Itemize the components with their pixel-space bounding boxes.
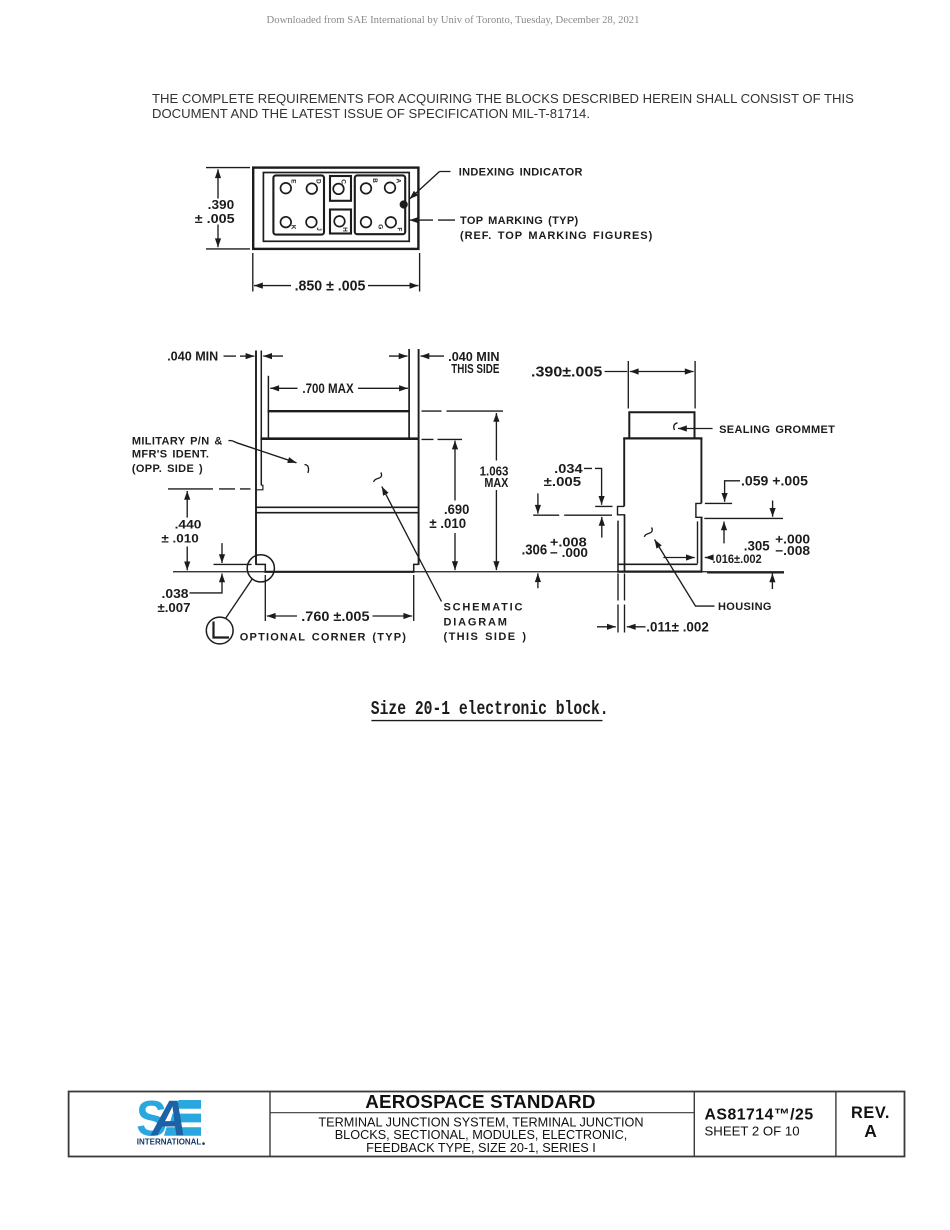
terminal hole K bbox=[281, 217, 292, 228]
top view inner case outline bbox=[263, 173, 409, 242]
baseline right extension bbox=[707, 572, 784, 574]
svg-text:INTERNATIONAL: INTERNATIONAL bbox=[137, 1136, 202, 1146]
svg-text:INDEXING INDICATOR: INDEXING INDICATOR bbox=[459, 167, 583, 179]
svg-text:OPTIONAL CORNER (TYP): OPTIONAL CORNER (TYP) bbox=[240, 632, 407, 644]
SAE registered dot bbox=[202, 1142, 205, 1145]
dim .850 extension right bbox=[419, 253, 421, 292]
svg-text:E: E bbox=[289, 179, 296, 184]
svg-text:(THIS SIDE ): (THIS SIDE ) bbox=[444, 631, 528, 643]
left wall inner line bbox=[260, 351, 262, 486]
right wall outer line bbox=[418, 349, 420, 565]
svg-text:D: D bbox=[315, 179, 322, 184]
dim .390 side leader bbox=[605, 371, 628, 373]
dim .040 right arrow bbox=[421, 355, 445, 357]
svg-text:.306: .306 bbox=[522, 542, 548, 558]
dim .306 lower arrow bbox=[537, 573, 539, 588]
dim 1.063 lower dimension line bbox=[495, 490, 497, 570]
dim 1.063 top extension bbox=[422, 410, 504, 412]
svg-text:.760 ±.005: .760 ±.005 bbox=[301, 608, 369, 624]
svg-text:A: A bbox=[864, 1121, 877, 1141]
housing left wall upper bbox=[623, 438, 625, 506]
svg-text:HOUSING: HOUSING bbox=[718, 601, 772, 613]
terminal hole A bbox=[385, 182, 396, 193]
title block outer border bbox=[69, 1092, 905, 1157]
terminal hole B bbox=[361, 183, 372, 194]
svg-text:A: A bbox=[395, 178, 402, 183]
dim .390 extension bottom bbox=[206, 248, 250, 250]
dim .390 side dimension line left arrow bbox=[630, 371, 661, 373]
dim .016 right arrow bbox=[705, 557, 713, 559]
dim 1.063 upper dimension line bbox=[495, 413, 497, 461]
svg-text:± .005: ± .005 bbox=[195, 211, 235, 226]
top marking leader bbox=[410, 219, 456, 221]
svg-text:REV.: REV. bbox=[851, 1104, 890, 1122]
dim .440 upper dimension line bbox=[186, 491, 188, 518]
svg-text:FEEDBACK TYPE, SIZE 20-1, SERI: FEEDBACK TYPE, SIZE 20-1, SERIES I bbox=[366, 1141, 596, 1155]
housing right inner line bbox=[697, 521, 699, 563]
grommet outline side view bbox=[629, 412, 694, 438]
title block horizontal divider bbox=[270, 1112, 694, 1114]
SAE logo letter E bars bbox=[164, 1100, 201, 1136]
tab top extension bbox=[595, 505, 612, 507]
title block divider title/number bbox=[693, 1092, 695, 1157]
svg-text:DIAGRAM: DIAGRAM bbox=[444, 616, 509, 628]
svg-text:MILITARY P/N &: MILITARY P/N & bbox=[132, 435, 223, 447]
dim .040 left arrow bbox=[240, 355, 254, 357]
svg-text:H: H bbox=[341, 227, 348, 232]
grommet left side and .700 extension bbox=[267, 376, 269, 438]
left tab bbox=[618, 506, 626, 514]
schematic diagram leader bbox=[382, 487, 442, 602]
right groove bbox=[696, 503, 703, 517]
svg-text:SHEET 2 OF 10: SHEET 2 OF 10 bbox=[705, 1123, 800, 1138]
svg-text:AEROSPACE STANDARD: AEROSPACE STANDARD bbox=[365, 1091, 595, 1112]
dim .059 upper arrow bbox=[724, 487, 726, 502]
housing leader hook bbox=[644, 528, 652, 537]
svg-text:− .000: − .000 bbox=[550, 546, 588, 560]
schematic diagram leader hook bbox=[374, 473, 382, 482]
sealing grommet leader hook bbox=[674, 423, 678, 430]
housing left skirt inner line bbox=[624, 515, 626, 572]
dim .390 side extension right bbox=[694, 361, 696, 409]
right wall inner line bbox=[408, 349, 410, 438]
optional corner balloon leader bbox=[226, 579, 253, 618]
dim .760 extension left bbox=[264, 575, 266, 621]
svg-text:.390: .390 bbox=[208, 197, 235, 212]
housing right wall upper bbox=[700, 438, 702, 503]
dim .011 right arrow bbox=[627, 626, 646, 628]
title block divider number/rev bbox=[835, 1092, 837, 1157]
tab bottom extension bbox=[533, 514, 612, 516]
groove bottom extension bbox=[704, 517, 783, 519]
terminal hole F bbox=[386, 217, 397, 228]
seam line lower bbox=[256, 512, 419, 514]
title block divider logo/title bbox=[269, 1092, 271, 1157]
svg-text:± .010: ± .010 bbox=[429, 516, 466, 531]
dim .440 lower dimension line bbox=[186, 547, 188, 571]
svg-text:.059 +.005: .059 +.005 bbox=[741, 473, 808, 488]
svg-text:(OPP. SIDE ): (OPP. SIDE ) bbox=[132, 463, 203, 475]
military ident leader hook bbox=[305, 465, 309, 474]
svg-text:THIS SIDE: THIS SIDE bbox=[451, 362, 499, 376]
svg-text:J: J bbox=[315, 227, 322, 231]
svg-text:TOP MARKING (TYP): TOP MARKING (TYP) bbox=[460, 215, 579, 227]
housing leader bbox=[655, 540, 715, 607]
dim .040 left dash bbox=[224, 355, 237, 357]
sealing grommet leader bbox=[678, 428, 713, 430]
dim .034 upper arrow bbox=[601, 478, 603, 505]
svg-text:SEALING GROMMET: SEALING GROMMET bbox=[719, 424, 835, 436]
svg-text:.700 MAX: .700 MAX bbox=[302, 381, 354, 396]
dim .390 side extension left bbox=[627, 361, 629, 409]
dim .011 left arrow bbox=[597, 626, 616, 628]
terminal hole J bbox=[306, 217, 317, 228]
dim .390 extension top bbox=[206, 167, 250, 169]
bottom right corner notch bbox=[414, 564, 419, 571]
left cavity outline bbox=[273, 175, 324, 234]
dim .850 dimension line left bbox=[254, 285, 291, 287]
dim .040 left inner arrow bbox=[263, 355, 283, 357]
svg-text:MAX: MAX bbox=[484, 475, 508, 490]
middle cavity square H bbox=[330, 210, 351, 234]
grommet top edge bbox=[268, 410, 410, 412]
svg-text:±.007: ±.007 bbox=[158, 600, 191, 615]
dim .305 upper arrow bbox=[772, 501, 774, 517]
paragraph bbox=[152, 91, 862, 121]
dim .059 lower arrow bbox=[723, 522, 725, 544]
optional corner detail circle bbox=[247, 555, 274, 582]
seam line upper bbox=[256, 506, 419, 508]
dim .016 left arrow bbox=[663, 557, 694, 559]
dim .850 dimension line right bbox=[368, 285, 418, 287]
SAE logo letter A bbox=[150, 1091, 187, 1147]
optional corner balloon L mark bbox=[214, 622, 230, 638]
optional corner balloon circle bbox=[206, 617, 233, 644]
dim .038 upper arrow bbox=[221, 543, 223, 563]
svg-text:−.008: −.008 bbox=[775, 544, 810, 558]
svg-text:.040 MIN: .040 MIN bbox=[167, 350, 218, 364]
terminal hole G bbox=[361, 217, 372, 228]
dim .306 upper arrow bbox=[537, 493, 539, 513]
housing right wall lower bbox=[701, 517, 703, 571]
dim .690 upper dimension line bbox=[454, 441, 456, 501]
middle cavity square C bbox=[330, 176, 351, 201]
svg-text:.011± .002: .011± .002 bbox=[646, 620, 709, 635]
svg-text:AS81714™/25: AS81714™/25 bbox=[705, 1106, 814, 1123]
housing outer bottom edge bbox=[617, 570, 702, 572]
dim .011 extension lines bbox=[618, 574, 625, 633]
svg-text:±.005: ±.005 bbox=[544, 474, 581, 489]
svg-text:(REF. TOP MARKING FIGURES): (REF. TOP MARKING FIGURES) bbox=[460, 230, 653, 242]
svg-text:K: K bbox=[290, 225, 297, 230]
svg-text:G: G bbox=[376, 224, 383, 229]
body shoulder edge bbox=[260, 437, 419, 440]
top view outer case outline bbox=[253, 168, 418, 249]
dim .690 lower dimension line bbox=[454, 533, 456, 570]
indexing indicator leader bbox=[410, 172, 451, 200]
svg-text:.850 ± .005: .850 ± .005 bbox=[295, 278, 366, 294]
terminal hole C bbox=[333, 184, 344, 195]
housing left skirt outer line bbox=[617, 521, 619, 572]
dim .850 extension left bbox=[252, 253, 254, 292]
figure caption underline bbox=[371, 720, 602, 722]
dim .305 lower arrow bbox=[771, 574, 773, 590]
svg-text:.390±.005: .390±.005 bbox=[531, 364, 602, 380]
svg-text:C: C bbox=[340, 179, 347, 184]
dim .760 extension right bbox=[413, 575, 415, 621]
military ident leader bbox=[229, 440, 297, 462]
svg-text:.690: .690 bbox=[444, 502, 469, 517]
housing inner bottom edge bbox=[618, 563, 698, 565]
svg-text:Size 20-1 electronic block.: Size 20-1 electronic block. bbox=[371, 700, 609, 721]
terminal hole E bbox=[281, 183, 292, 194]
svg-text:B: B bbox=[371, 178, 378, 183]
dim .040 right inner arrow bbox=[389, 355, 408, 357]
right cavity outline bbox=[355, 175, 405, 234]
header download notice bbox=[0, 14, 906, 26]
svg-text:SCHEMATIC: SCHEMATIC bbox=[444, 602, 525, 614]
front view bottom edge bbox=[265, 571, 415, 573]
dim .760 dimension left arrow bbox=[267, 615, 297, 617]
terminal hole H bbox=[334, 216, 345, 227]
svg-text:.440: .440 bbox=[175, 517, 202, 531]
dim .440 extension line bbox=[168, 488, 251, 490]
left wall step bbox=[257, 485, 263, 490]
dim .700 dimension left arrow bbox=[270, 387, 297, 389]
groove top extension bbox=[705, 502, 732, 504]
SAE logo letter S bbox=[136, 1092, 167, 1147]
terminal hole D bbox=[307, 183, 318, 194]
dim .034 lower arrow bbox=[601, 517, 603, 538]
dim .390 side dimension line right arrow bbox=[661, 371, 694, 373]
baseline mounting surface bbox=[173, 571, 784, 573]
dim .038 lower arrow bbox=[221, 574, 223, 590]
left wall outer line bbox=[255, 351, 257, 565]
dim .059 connector bbox=[725, 481, 740, 487]
dim .390 dimension line bbox=[217, 169, 219, 198]
dim .038 connector bbox=[190, 590, 223, 593]
dim .038 notch extension bbox=[214, 563, 252, 565]
housing shoulder side view bbox=[623, 437, 702, 439]
svg-text:MFR'S IDENT.: MFR'S IDENT. bbox=[132, 449, 209, 461]
indexing indicator dot bbox=[400, 200, 408, 208]
bottom left corner notch bbox=[256, 564, 265, 571]
svg-text:± .010: ± .010 bbox=[161, 532, 199, 546]
dim .034 connector bbox=[584, 468, 602, 478]
dim .760 dimension right arrow bbox=[373, 615, 413, 617]
svg-text:F: F bbox=[396, 227, 403, 231]
svg-text:.016±.002: .016±.002 bbox=[713, 552, 762, 566]
dim .690 top extension bbox=[422, 438, 463, 440]
dim .700 dimension right arrow bbox=[358, 387, 408, 389]
